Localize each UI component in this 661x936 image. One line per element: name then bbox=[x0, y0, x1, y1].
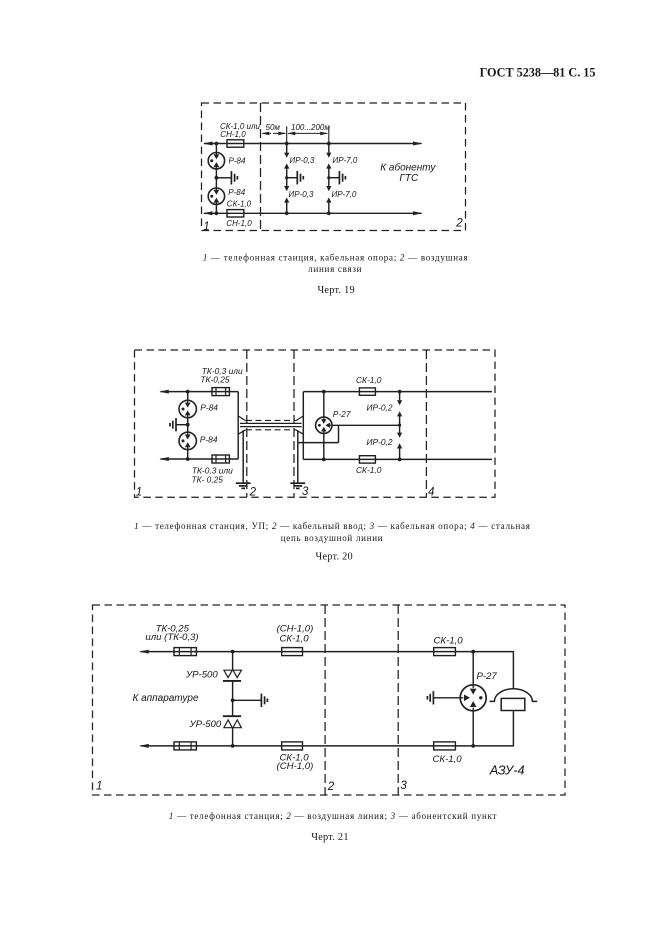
ground symbol cable pole fig20 bbox=[290, 482, 305, 484]
svg-text:1: 1 bbox=[136, 487, 142, 499]
junction top wire/R-27 fig20 bbox=[322, 390, 326, 394]
fuse SK-1,0 subscriber bottom fig21 bbox=[434, 742, 456, 750]
svg-text:1: 1 bbox=[203, 221, 209, 233]
arrow to station, top wire fig19 bbox=[203, 142, 213, 146]
wire R-27 branch fig21 bbox=[472, 652, 474, 746]
wire bottom right segment fig20 bbox=[303, 458, 492, 460]
dimension witness line pole 2 fig19 bbox=[328, 127, 330, 144]
svg-text:линия связи: линия связи bbox=[308, 264, 362, 274]
arrow to station bottom fig20 bbox=[159, 457, 169, 461]
svg-text:СК-1,0: СК-1,0 bbox=[356, 375, 382, 385]
arrester R-27 three-electrode fig21 bbox=[460, 685, 486, 711]
cable end flare bottom-left fig20 bbox=[238, 430, 246, 434]
svg-text:Р-27: Р-27 bbox=[333, 409, 351, 419]
wire top right segment fig20 bbox=[303, 391, 492, 393]
junction top wire/branch fig20 bbox=[186, 390, 190, 394]
fuse SK-1,0 line bottom fig21 bbox=[282, 742, 303, 750]
svg-text:2: 2 bbox=[249, 486, 257, 498]
arrester R-27 three-electrode fig20 bbox=[316, 417, 332, 433]
svg-text:ГОСТ 5238—81 С. 15: ГОСТ 5238—81 С. 15 bbox=[480, 66, 596, 80]
junction top wire / UR branch fig21 bbox=[231, 650, 235, 654]
cable end flare bottom-right fig20 bbox=[296, 430, 304, 434]
junction top wire / arrester branch fig19 bbox=[215, 142, 219, 146]
svg-text:1 — телефонная станция, кабель: 1 — телефонная станция, кабельная опора;… bbox=[203, 252, 468, 262]
dimension 100-200m line fig19 bbox=[288, 132, 327, 134]
svg-text:или (ТК-0,3): или (ТК-0,3) bbox=[145, 632, 198, 643]
svg-text:3: 3 bbox=[400, 780, 407, 792]
dimension 50m left arrow fig19 bbox=[261, 132, 269, 136]
figure 20 divider cable entry/pole bbox=[293, 350, 295, 497]
spark gap IR-0,3 column pole1 fig19 bbox=[285, 142, 289, 146]
wire UR branch lower fig21 bbox=[232, 728, 234, 746]
wire R-27 third electrode to gap node fig20 bbox=[332, 424, 400, 426]
svg-text:Р-84: Р-84 bbox=[200, 403, 218, 413]
arrow to station, bottom wire fig19 bbox=[203, 211, 213, 215]
figure 20 enclosure dashed box bbox=[135, 350, 496, 497]
wire top pair conductor, fig19 bbox=[204, 143, 422, 145]
svg-text:1 — телефонная станция, УП; 2: 1 — телефонная станция, УП; 2 — кабельны… bbox=[134, 521, 530, 531]
arrow to equipment bottom fig21 bbox=[139, 744, 149, 748]
svg-text:ИР-0,2: ИР-0,2 bbox=[367, 403, 393, 413]
svg-text:АЗУ-4: АЗУ-4 bbox=[489, 763, 525, 778]
svg-text:Р-84: Р-84 bbox=[229, 156, 246, 165]
figure 19 enclosure dashed box bbox=[202, 103, 466, 231]
svg-text:УР-500: УР-500 bbox=[185, 670, 218, 681]
wire left riser to cable fig20 bbox=[237, 392, 239, 459]
svg-text:Р-84: Р-84 bbox=[228, 188, 245, 197]
spark gap IR-7,0 column pole2 fig19 bbox=[327, 142, 331, 146]
fuse SK-1,0 bottom fig20 bbox=[359, 456, 375, 463]
dimension 100-200m right arrow fig19 bbox=[320, 132, 328, 136]
svg-text:Р-84: Р-84 bbox=[200, 434, 218, 444]
svg-text:4: 4 bbox=[428, 487, 434, 499]
ground symbol station fig19 bbox=[230, 171, 232, 184]
fuse TK top fig21 bbox=[174, 648, 196, 656]
ground symbol station fig20 bbox=[175, 418, 177, 431]
wire ground tie riser fig20 bbox=[338, 425, 340, 442]
fuse TK bottom fig21 bbox=[174, 742, 196, 750]
junction bottom wire / arrester branch fig19 bbox=[215, 211, 219, 215]
junction UR midpoint fig21 bbox=[231, 698, 235, 702]
arrester R-84 lower fig20 bbox=[179, 432, 196, 449]
ground symbol station fig21 bbox=[260, 694, 262, 707]
fuse TK top fig20 bbox=[212, 388, 229, 396]
varistor UR-500 lower fig21 bbox=[223, 715, 241, 717]
svg-text:цепь воздушной линии: цепь воздушной линии bbox=[281, 533, 384, 543]
wire arrester R-27 branch fig20 bbox=[323, 392, 325, 460]
svg-text:СК-1,0: СК-1,0 bbox=[433, 754, 463, 765]
wire ground tie horizontal fig20 bbox=[298, 442, 339, 444]
cable sheath ground drop left fig20 bbox=[242, 430, 244, 483]
protector AZU-4 box fig21 bbox=[501, 698, 525, 710]
svg-text:Черт. 19: Черт. 19 bbox=[317, 285, 354, 296]
svg-text:СК-1,0: СК-1,0 bbox=[227, 199, 252, 208]
ground symbol cable entry fig20 bbox=[236, 482, 251, 484]
dimension 50m right arrow fig19 bbox=[278, 132, 286, 136]
arrester R-84 upper fig20 bbox=[179, 400, 196, 417]
wire right riser from cable fig20 bbox=[302, 392, 304, 460]
figure 20 divider station/cable entry bbox=[246, 350, 248, 497]
wire arrester branch fig20 bbox=[187, 392, 189, 459]
svg-text:ТК-0,25: ТК-0,25 bbox=[200, 375, 229, 385]
wire ground lead fig21 subscriber bbox=[434, 697, 461, 699]
wire to station ground fig20 bbox=[177, 424, 188, 426]
svg-text:(СН-1,0): (СН-1,0) bbox=[277, 761, 314, 772]
ground symbol subscriber fig21 bbox=[432, 691, 434, 704]
cable end flare top-right fig20 bbox=[296, 416, 304, 421]
wire arrester branch fig19 bbox=[215, 144, 217, 214]
svg-text:2: 2 bbox=[455, 217, 463, 229]
svg-text:3: 3 bbox=[302, 486, 309, 498]
svg-text:ТК- 0,25: ТК- 0,25 bbox=[192, 475, 224, 485]
figure 21 divider station/line bbox=[324, 605, 326, 795]
fuse SK-1,0 subscriber top fig21 bbox=[434, 648, 456, 656]
junction bottom wire / R-27 fig21 bbox=[471, 744, 475, 748]
svg-text:К абоненту: К абоненту bbox=[380, 162, 436, 174]
cable sheath dashed lower fig20 bbox=[246, 429, 296, 431]
varistor UR-500 upper fig21 bbox=[224, 670, 232, 677]
svg-text:ИР-0,3: ИР-0,3 bbox=[289, 190, 314, 199]
cable pair conductor upper fig20 bbox=[240, 422, 302, 424]
wire UR branch upper fig21 bbox=[232, 652, 234, 670]
fuse SK-1,0 top wire fig19 bbox=[227, 140, 244, 147]
svg-text:2: 2 bbox=[327, 781, 335, 793]
svg-text:Р-27: Р-27 bbox=[477, 671, 498, 682]
wire UR branch middle fig21 bbox=[232, 681, 234, 716]
svg-text:СН-1,0: СН-1,0 bbox=[220, 130, 246, 139]
protector AZU-4 dome fig21 bbox=[490, 689, 538, 702]
dimension 50m line fig19 bbox=[263, 132, 286, 134]
junction bottom wire/R-27 fig20 bbox=[322, 458, 326, 462]
cable sheath dashed upper fig20 bbox=[246, 419, 296, 421]
figure 19 section divider (station / overhead line) bbox=[260, 103, 262, 231]
spark gap IR-0,2 column fig20 bbox=[398, 390, 402, 394]
svg-text:Черт. 21: Черт. 21 bbox=[311, 832, 348, 843]
svg-text:50м: 50м bbox=[266, 123, 281, 132]
svg-text:СК-1,0: СК-1,0 bbox=[434, 635, 464, 646]
cable sheath ground drop right fig20 bbox=[297, 430, 299, 483]
junction top wire / R-27 fig21 bbox=[471, 650, 475, 654]
svg-text:УР-500: УР-500 bbox=[189, 719, 222, 730]
arrester R-84 lower fig19 bbox=[208, 188, 224, 204]
arrow to subscriber, bottom wire fig19 bbox=[413, 211, 423, 215]
dimension witness line pole 1 fig19 bbox=[286, 126, 288, 143]
svg-text:Черт. 20: Черт. 20 bbox=[315, 552, 352, 563]
fuse SK-1,0 top fig20 bbox=[359, 388, 375, 395]
svg-text:ИР-7,0: ИР-7,0 bbox=[332, 190, 357, 199]
dimension 100-200m left arrow fig19 bbox=[287, 132, 295, 136]
svg-text:СК-1,0: СК-1,0 bbox=[280, 634, 310, 645]
wire bottom conductor fig21 bbox=[141, 711, 514, 746]
svg-text:СН-1,0: СН-1,0 bbox=[226, 219, 252, 228]
svg-text:100...200м: 100...200м bbox=[291, 123, 330, 132]
figure 21 divider line/subscriber bbox=[397, 605, 399, 795]
svg-text:СК-1,0: СК-1,0 bbox=[356, 465, 382, 475]
svg-text:ГТС: ГТС bbox=[399, 173, 419, 184]
arrow to equipment top fig21 bbox=[139, 650, 149, 654]
wire top left segment fig20 bbox=[161, 391, 239, 393]
wire bottom pair conductor, fig19 bbox=[204, 212, 422, 214]
svg-text:1: 1 bbox=[96, 781, 102, 793]
svg-text:ИР-7,0: ИР-7,0 bbox=[333, 156, 358, 165]
wire to ground fig21 station bbox=[233, 699, 261, 701]
cable end flare top-left fig20 bbox=[238, 416, 246, 421]
wire top conductor fig21 bbox=[141, 652, 514, 689]
arrester R-84 upper fig19 bbox=[208, 153, 224, 169]
svg-text:ИР-0,2: ИР-0,2 bbox=[367, 437, 393, 447]
junction bottom wire/branch fig20 bbox=[186, 457, 190, 461]
junction arrester midpoint fig20 bbox=[186, 423, 190, 427]
wire bottom left segment fig20 bbox=[161, 458, 239, 460]
fuse SK-1,0 bottom wire fig19 bbox=[227, 210, 244, 217]
arrow to station top fig20 bbox=[159, 390, 169, 394]
wire to ground fig19 station bbox=[216, 177, 230, 179]
fuse SK-1,0 line top fig21 bbox=[282, 648, 303, 656]
figure 20 divider pole/steel circuit bbox=[425, 350, 427, 497]
svg-text:ИР-0,3: ИР-0,3 bbox=[290, 156, 315, 165]
fuse TK bottom fig20 bbox=[212, 455, 229, 463]
junction arrester midpoint fig19 bbox=[215, 176, 219, 180]
figure 21 enclosure dashed box bbox=[93, 605, 566, 795]
svg-text:1 — телефонная станция; 2 — во: 1 — телефонная станция; 2 — воздушная ли… bbox=[169, 811, 497, 821]
arrow to subscriber, top wire fig19 bbox=[413, 142, 423, 146]
junction bottom wire / UR branch fig21 bbox=[231, 744, 235, 748]
cable pair conductor lower fig20 bbox=[240, 426, 302, 428]
svg-text:К аппаратуре: К аппаратуре bbox=[133, 693, 199, 704]
